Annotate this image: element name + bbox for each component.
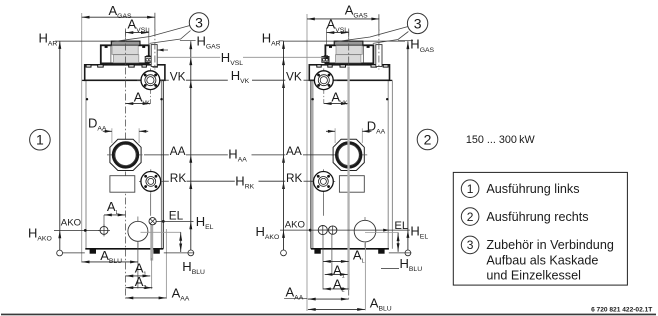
svg-text:AKO: AKO [61, 217, 81, 228]
dim A_GAS U2 [307, 18, 379, 20]
wire H-dim line far-left U1 [59, 41, 61, 253]
svg-text:Ausführung rechts: Ausführung rechts [486, 210, 588, 224]
svg-text:Zubehör in Verbindung: Zubehör in Verbindung [486, 238, 613, 252]
wire H-dim line far-right U2 [407, 41, 409, 253]
floor datum left [57, 250, 63, 256]
AKO ext U1 [103, 215, 105, 226]
wire ext right-outer L1 [165, 229, 167, 299]
callout 3 U1 [189, 13, 208, 32]
dim D_AA [111, 128, 113, 143]
EL connection U1 [149, 218, 156, 225]
svg-text:AA: AA [286, 144, 302, 158]
svg-text:und Einzelkessel: und Einzelkessel [486, 269, 581, 283]
svg-text:RK: RK [170, 171, 187, 185]
svg-text:6 720 821 422-02.1T: 6 720 821 422-02.1T [591, 307, 652, 314]
floor datum mid-right [281, 250, 287, 256]
dim A_GAS U1 [82, 16, 155, 18]
flue drop pipe U2 [347, 67, 349, 291]
panel screws [86, 98, 88, 100]
foot [90, 249, 96, 254]
boiler top cover [85, 65, 165, 81]
svg-text:3: 3 [414, 15, 422, 31]
svg-text:3: 3 [467, 238, 474, 252]
dim ext lines U2 bottom [322, 235, 324, 290]
AKO connection U2 [318, 226, 327, 235]
dim A_AA U2 [308, 298, 349, 300]
H_AA reference line (shared) [144, 154, 169, 156]
cover clips [86, 65, 91, 67]
legend box [453, 172, 627, 285]
AKO/EL leader U2 [280, 229, 410, 231]
floor datum mid-left [188, 250, 194, 256]
dim A_VSL U1 [126, 32, 149, 34]
dim A_BLU U1 [82, 261, 138, 263]
svg-text:VK: VK [286, 69, 302, 83]
dim A_2 U1 [126, 287, 153, 289]
boiler unit 2 (mirrored) [309, 29, 392, 299]
svg-text:AA: AA [170, 144, 186, 158]
RK flange [139, 180, 164, 182]
wire centerline overlay [125, 31, 127, 67]
svg-text:EL: EL [169, 208, 184, 222]
wire H-dim line mid-right U2 [283, 41, 285, 253]
svg-text:1: 1 [36, 132, 44, 148]
callout 1 [30, 129, 51, 150]
dim A_BLU U2 [308, 308, 365, 310]
H_RK reference line (shared) [163, 180, 169, 182]
VK flange [137, 79, 164, 81]
svg-text:RK: RK [286, 171, 303, 185]
callout 2 [417, 129, 438, 150]
svg-text:2: 2 [467, 210, 474, 224]
EL leader U1 [156, 220, 193, 222]
callout 3 U2 leader [335, 27, 408, 42]
svg-text:Aufbau als Kaskade: Aufbau als Kaskade [486, 254, 598, 268]
H_BLU dim U2 [397, 233, 399, 252]
H_VSL reference line (shared) [157, 56, 220, 58]
wire centerline [125, 29, 127, 299]
wire ext left-outer L1 [81, 13, 83, 263]
H_BLU dim U1 [180, 232, 182, 252]
dim A_VK [126, 103, 151, 105]
svg-text:150 ... 300 kW: 150 ... 300 kW [466, 134, 536, 146]
wire H-dim line mid-left U1 [190, 41, 192, 253]
wire BLU ref U1 [141, 231, 182, 233]
svg-text:AKO: AKO [285, 219, 305, 230]
control box [110, 176, 135, 193]
dim A_VSL U2 [327, 32, 349, 34]
H_GAS leader U1 [180, 40, 196, 42]
A_AA label leader U2 [284, 298, 307, 300]
wire BLU ref U2 [365, 232, 399, 234]
legend item 1 [461, 180, 479, 198]
H_AR leader U2 [279, 40, 284, 42]
H_GAS leader U2 [398, 40, 413, 42]
BLU air intake U1 [137, 217, 139, 248]
svg-text:3: 3 [195, 14, 203, 30]
AKO connection U1 [98, 229, 110, 231]
dim A_1 U2 [325, 273, 348, 275]
BLU air intake U2 [364, 217, 366, 248]
floor datum right [405, 250, 411, 256]
EL drain pipe U1 [150, 223, 153, 260]
svg-text:EL: EL [394, 220, 408, 232]
VSL pipe U2 [376, 45, 382, 67]
dim A_AKO U1 [104, 214, 126, 216]
svg-text:Ausführung links: Ausführung links [486, 182, 579, 196]
bottom rule [1, 314, 656, 316]
H_VK reference line (shared) [163, 79, 169, 81]
callout 3 U2 [407, 13, 427, 33]
wire ext BLU U2 [364, 242, 366, 310]
boiler body [85, 81, 87, 249]
svg-text:VK: VK [170, 69, 186, 83]
svg-text:2: 2 [424, 131, 432, 147]
H_AKO leader U1 [54, 229, 100, 231]
gas connection stub [145, 57, 152, 63]
wire ext left-outer U2 [306, 14, 308, 311]
callout 3 U1 leader [112, 26, 190, 42]
EL connection U2 [329, 226, 337, 234]
dim A_AA U1 [126, 297, 167, 299]
dim A_AKO U2 [323, 260, 349, 262]
dim A_1 U1 [126, 275, 151, 277]
dim A_2 U2 [323, 288, 349, 290]
legend item 3 [461, 236, 479, 254]
svg-text:1: 1 [467, 182, 474, 196]
AA flue [110, 139, 141, 170]
wire body outer edge U2 [391, 81, 393, 249]
gas train G1 [101, 45, 149, 63]
junction dots [84, 229, 87, 232]
H_AR reference line U1 [55, 40, 111, 42]
legend item 2 [461, 208, 479, 226]
VSL pipe U1 [151, 45, 157, 67]
